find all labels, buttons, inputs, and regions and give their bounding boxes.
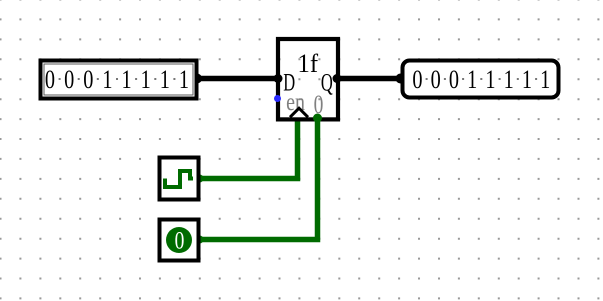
node output pin port dot (396, 74, 406, 84)
node clock output port dot (196, 175, 204, 183)
svg-text:0: 0 (449, 66, 459, 95)
wire constant-0 net (green) (196, 120, 318, 240)
svg-text:1: 1 (179, 66, 189, 95)
wire D bus (black) (196, 76, 282, 82)
node clear port junction dot (green) (313, 114, 322, 123)
value label 00011111 on input pin IN1 (45, 66, 189, 95)
wire Q bus (black) (336, 76, 405, 82)
wire clock net (green) (196, 120, 298, 179)
node constant-0 output port dot (196, 236, 204, 244)
output pin OUT1 (8-bit) (403, 61, 559, 98)
svg-text:0: 0 (412, 66, 422, 95)
clock source CLK (160, 158, 199, 200)
svg-text:1: 1 (467, 66, 477, 95)
svg-text:0: 0 (64, 66, 74, 95)
node input pin port dot (192, 74, 202, 84)
node register D port dot (274, 74, 283, 83)
svg-text:1: 1 (522, 66, 532, 95)
node enable port EN (floating, blue) (274, 95, 281, 102)
svg-text:0: 0 (431, 66, 441, 95)
register U1 (278, 39, 338, 119)
svg-text:1: 1 (160, 66, 170, 95)
svg-text:1: 1 (121, 66, 131, 95)
node register Q port dot (333, 74, 342, 83)
svg-text:0: 0 (83, 66, 93, 95)
svg-text:1: 1 (540, 66, 550, 95)
svg-text:1: 1 (504, 66, 514, 95)
input pin IN1 (8-bit) (41, 61, 197, 99)
svg-text:1: 1 (141, 66, 151, 95)
svg-text:1: 1 (102, 66, 112, 95)
input pin EN0 (1-bit value 0) (160, 220, 199, 261)
svg-text:1f: 1f (298, 49, 319, 78)
svg-text:1: 1 (485, 66, 495, 95)
svg-text:0: 0 (175, 226, 185, 254)
svg-text:0: 0 (45, 66, 55, 95)
value label 00011111 on output pin OUT1 (412, 66, 550, 95)
pin clock triangle marker on register (290, 108, 308, 117)
